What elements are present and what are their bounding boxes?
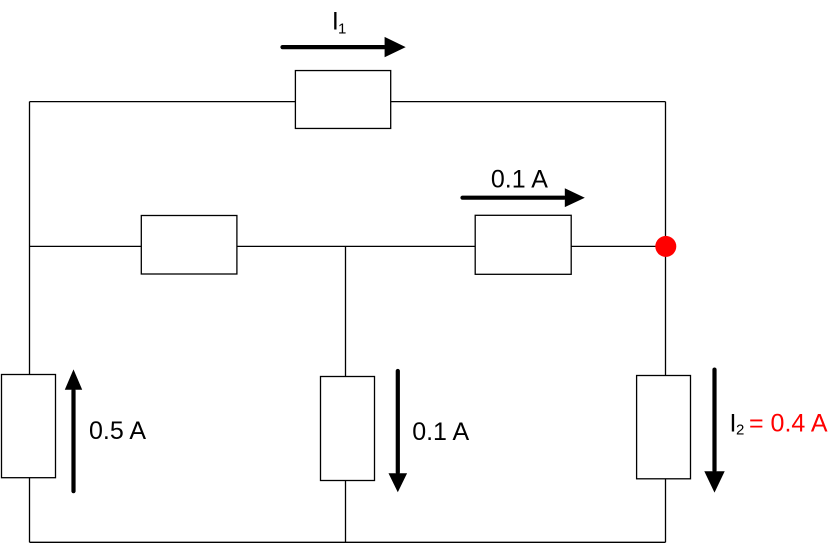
- svg-text:0.5 A: 0.5 A: [89, 417, 146, 445]
- svg-text:2: 2: [736, 422, 744, 439]
- svg-text:1: 1: [338, 20, 346, 37]
- svg-text:= 0.4 A: = 0.4 A: [749, 410, 828, 438]
- svg-text:0.1 A: 0.1 A: [491, 166, 548, 194]
- svg-text:0.1 A: 0.1 A: [412, 418, 469, 446]
